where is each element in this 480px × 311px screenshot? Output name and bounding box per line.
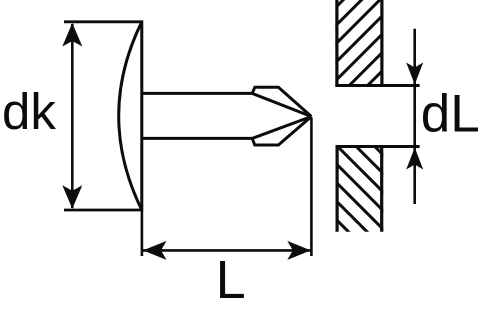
lower wall right edge (380, 147, 383, 232)
upper wall hatching (243, 0, 480, 100)
shank bottom line (142, 137, 252, 140)
dk extension line top (64, 20, 142, 23)
upper wall left edge (335, 0, 338, 86)
L dimension arrow left (143, 241, 167, 260)
L extension line left (141, 211, 144, 256)
dL dimension arrow up (406, 148, 423, 170)
lower wall hatching (217, 100, 480, 300)
tip facet edge lower (252, 117, 311, 139)
tip outline upper (252, 87, 311, 116)
dk extension line bottom (64, 209, 142, 212)
upper wall bottom edge / dL extension top (335, 84, 419, 87)
upper wall right edge (380, 0, 383, 86)
L dimension line (143, 249, 311, 252)
lower wall left edge (336, 147, 339, 232)
shank top line (142, 92, 252, 95)
dL dimension line (413, 29, 416, 204)
rivet head dome arc (119, 22, 142, 210)
svg-text:dL: dL (421, 85, 480, 144)
L extension line right (310, 118, 313, 257)
svg-text:L: L (216, 250, 246, 310)
rivet head back face (140, 20, 143, 211)
dk dimension arrow up (62, 23, 82, 47)
dL dimension arrow down (406, 63, 423, 85)
tip facet edge upper (252, 93, 311, 116)
dk dimension line (71, 24, 74, 208)
lower wall top edge / dL extension bottom (336, 145, 420, 148)
svg-text:dk: dk (2, 83, 56, 140)
dk dimension arrow down (62, 185, 82, 209)
L dimension arrow right (287, 241, 311, 260)
tip outline lower (252, 117, 311, 146)
